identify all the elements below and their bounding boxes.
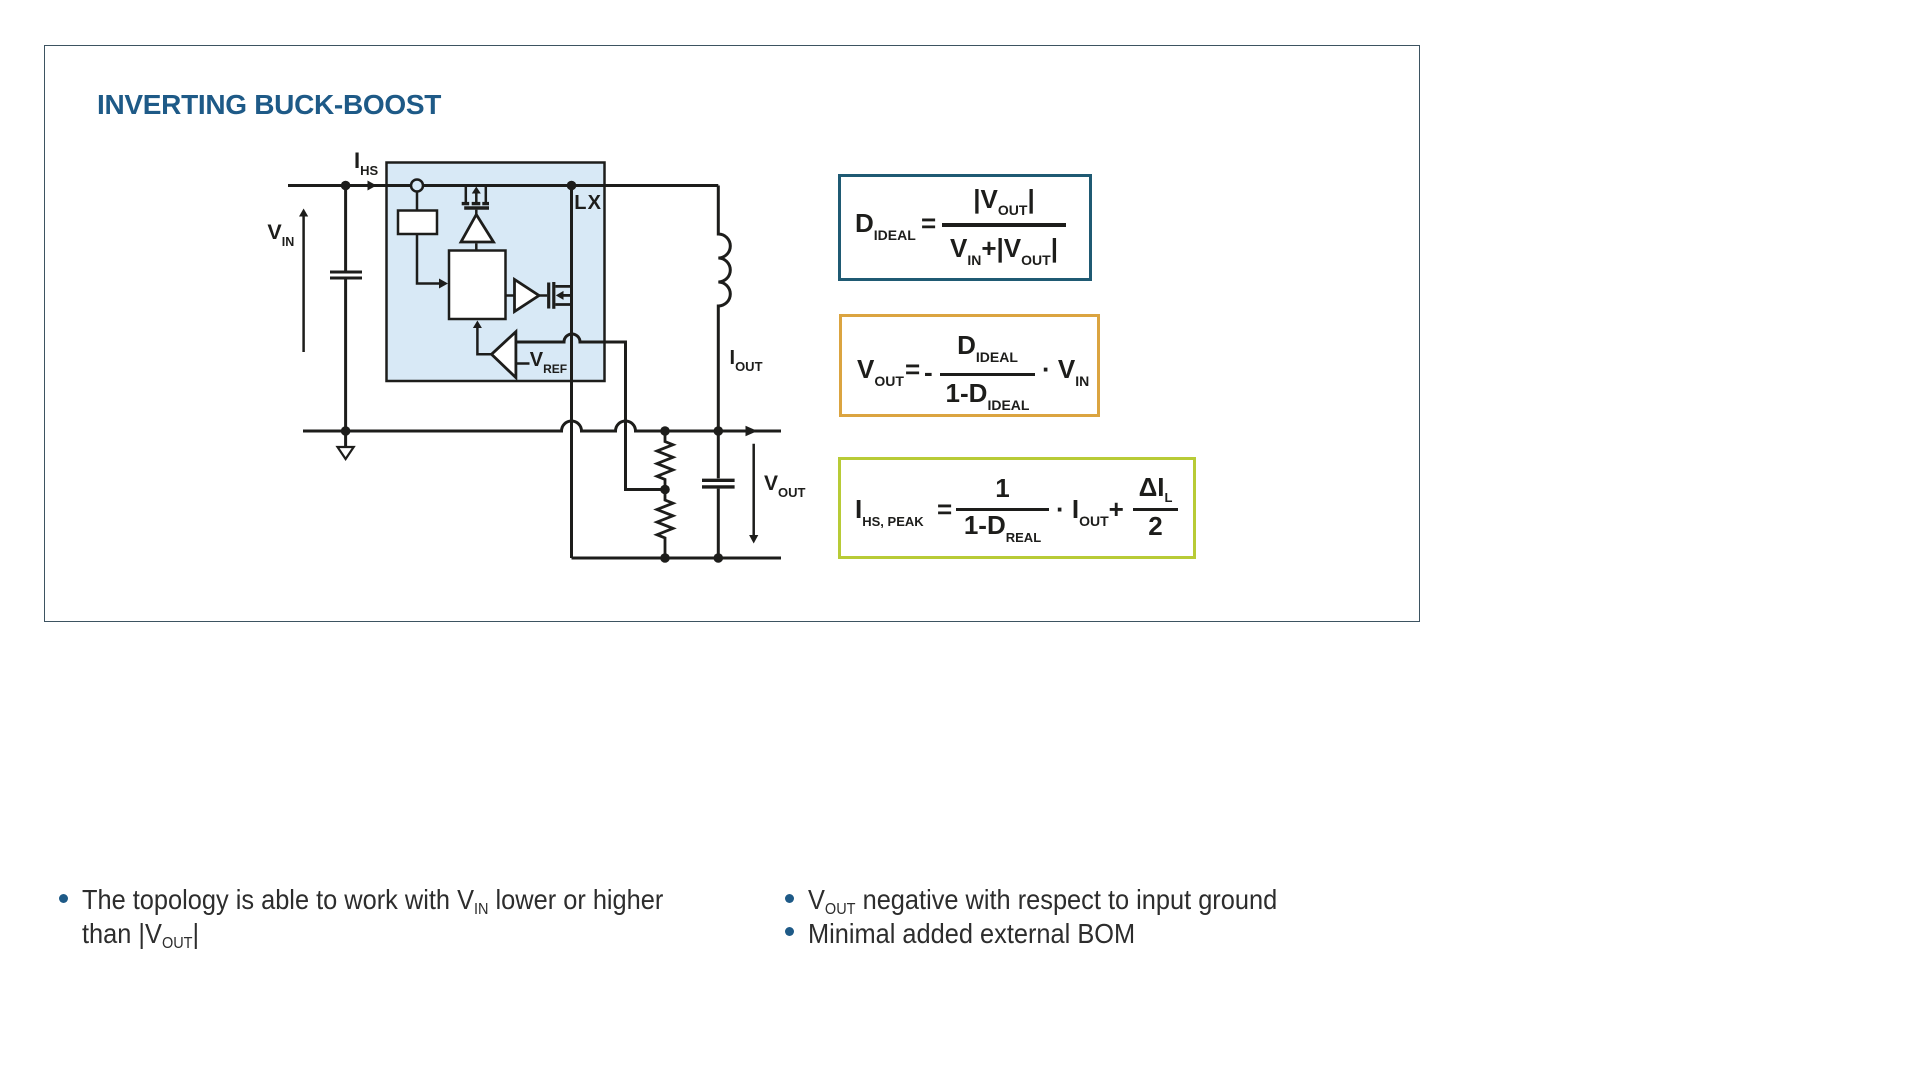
outer frame <box>44 45 1420 622</box>
label V_REF <box>530 350 567 370</box>
arrow V_OUT <box>749 444 758 544</box>
capacitor COUT bottom lead <box>717 489 720 558</box>
capacitor COUT top lead <box>717 431 720 478</box>
node: cap to ground rail <box>341 426 351 436</box>
wire: V_REF stub <box>516 362 530 365</box>
capacitor CIN <box>330 272 362 278</box>
wire: bubble to sense block <box>416 192 419 211</box>
wire: sense block to control block <box>417 234 448 289</box>
node: LX <box>567 181 577 191</box>
label LX <box>574 193 602 213</box>
transistor HS FET <box>462 187 489 209</box>
node: divider midpoint <box>660 485 670 495</box>
capacitor COUT <box>702 480 735 487</box>
equation box D_IDEAL (blue) <box>838 174 1092 281</box>
arrow on ground rail <box>746 426 758 437</box>
wire: control to LS buffer <box>506 294 515 297</box>
wire: driver to control block <box>475 243 478 250</box>
resistor R1 (feedback top) <box>657 431 673 490</box>
node: R2 to bottom rail <box>660 553 670 563</box>
bullet list <box>59 894 68 903</box>
ground <box>338 431 354 459</box>
wire: gate to driver <box>475 210 478 216</box>
node: divider top <box>660 426 670 436</box>
buffer (LS gate driver) <box>515 280 540 312</box>
comparator error amp <box>492 332 516 378</box>
current-sense bubble <box>411 180 423 192</box>
arrow V_IN <box>299 209 308 353</box>
wire: LX vertical <box>570 186 573 559</box>
wire: bottom VOUT rail <box>572 557 782 560</box>
transistor LS FET <box>549 282 572 309</box>
label I_OUT <box>730 348 763 368</box>
wire: comparator output to control block <box>473 321 492 355</box>
IC block (regulator) background <box>387 163 605 382</box>
block: control logic <box>449 251 506 320</box>
wire: buffer to gate <box>539 294 547 297</box>
capacitor CIN bottom lead <box>344 280 347 432</box>
equation box I_HS_PEAK (green) <box>838 457 1196 559</box>
wire: feedback into comparator with hop over LX <box>516 334 665 490</box>
slide title <box>97 89 441 121</box>
equation box V_OUT (orange) <box>839 314 1100 417</box>
resistor R2 (feedback bottom) <box>657 490 673 559</box>
label V_OUT <box>764 473 805 494</box>
arrow I_HS direction <box>368 181 377 191</box>
driver (HS gate buffer) <box>461 215 494 243</box>
block: current sense <box>398 211 437 235</box>
label I_HS <box>354 150 378 172</box>
label V_IN <box>267 222 294 244</box>
node: COUT bottom <box>714 553 724 563</box>
wire: top input rail VIN to LX <box>288 184 718 187</box>
inductor L <box>718 186 730 432</box>
node: inductor to rail <box>714 426 724 436</box>
node: input junction <box>341 181 351 191</box>
wire: ground rail with hops <box>303 421 781 431</box>
capacitor CIN top lead <box>344 186 347 271</box>
